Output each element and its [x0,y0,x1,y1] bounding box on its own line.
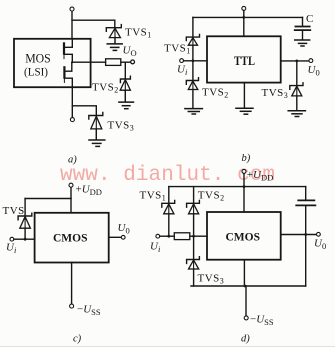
svg-text:TVS2: TVS2 [92,82,119,95]
junction [242,16,245,19]
ground [185,109,203,114]
wire bottom rail d [191,285,306,287]
ground [107,44,122,51]
wire [243,260,245,286]
svg-text:C: C [306,13,313,25]
svg-text:MOS: MOS [25,50,51,65]
wire [190,235,207,237]
wire [243,11,245,37]
wire top rail d [169,186,306,188]
wire [124,62,126,78]
wire output c [109,236,122,238]
capacitor C (b) [295,27,311,31]
resistor R (d) [174,233,190,240]
wire branch to TVS3 [72,106,96,115]
ground [89,140,105,146]
svg-text:U0: U0 [118,222,130,236]
svg-text:(LSI): (LSI) [24,67,48,79]
TVS diode TVS3 (d) [187,257,200,269]
terminal top a [70,7,74,11]
svg-text:TVS2: TVS2 [198,190,225,203]
TVS diode TVS (c) [18,213,32,228]
svg-text:TVS3: TVS3 [108,120,135,133]
wire [243,83,245,108]
transistor Q2 [64,62,72,87]
svg-text:TVS1: TVS1 [140,190,167,203]
wire [114,38,116,44]
wire bottom a [71,87,73,117]
wire [168,187,170,203]
svg-text:TVS2: TVS2 [202,87,229,100]
wire [121,61,131,63]
svg-text:Ui: Ui [177,64,188,78]
svg-text:U0: U0 [308,64,320,78]
terminal Ui b [180,59,184,63]
svg-text:TVS3: TVS3 [198,273,225,286]
wire output d [281,234,317,236]
IC MOS (LSI) box [14,39,91,87]
terminal Ui c [10,237,14,241]
svg-text:TVS1: TVS1 [164,43,191,56]
junction [167,235,170,238]
wire bottom c [71,263,73,305]
wire [243,174,245,212]
TVS diode TVS1 (d) [162,201,175,214]
wire input d [160,235,175,237]
wire [192,61,194,80]
IC CMOS box d [207,212,281,260]
wire input b [184,60,207,62]
wire [24,228,26,239]
terminal Uo c [121,235,125,239]
junction [244,285,247,288]
wire [302,17,304,26]
terminal +UDD d [242,169,246,173]
wire [296,96,298,111]
wire [168,214,170,236]
svg-text:U0: U0 [314,238,326,252]
svg-text:UO: UO [123,45,137,59]
wire input c [14,238,35,240]
terminal top b [242,6,246,10]
wire [192,90,194,109]
junction [192,59,195,62]
terminal +UDD c [69,183,73,187]
terminal Uo d [317,232,321,236]
wire [302,31,304,40]
svg-text:CMOS: CMOS [53,233,88,245]
svg-text:−USS: −USS [77,304,101,318]
ground [119,102,134,109]
wire [245,286,247,316]
svg-text:c): c) [73,334,82,345]
terminal -USS c [70,304,74,308]
svg-text:b): b) [242,153,251,164]
wire [296,61,298,85]
wire [72,20,115,27]
ground [288,111,305,117]
TVS diode TVS2 (b) [186,78,198,90]
svg-text:CMOS: CMOS [226,232,261,244]
svg-text:TVS3: TVS3 [262,87,289,100]
wire [95,129,97,140]
TVS diode TVS3 (a) [89,112,103,139]
junction [243,185,246,188]
junction [304,233,307,236]
wire [193,269,195,286]
TVS diode TVS2 (d) [187,201,200,214]
wire [193,187,195,203]
terminal -USS d [244,316,248,320]
svg-text:a): a) [68,155,77,166]
wire [193,214,195,236]
TVS diode TVS3 (b) [290,83,303,96]
wire [305,206,307,286]
svg-text:d): d) [241,334,250,345]
svg-text:TVS1: TVS1 [125,27,152,40]
IC CMOS box c [35,213,109,263]
wire [305,187,307,200]
terminal bottom a [70,118,74,122]
wire output b [281,60,309,62]
svg-text:Ui: Ui [150,241,161,255]
wire top rail b [193,16,303,18]
svg-text:Ui: Ui [6,242,17,256]
junction [295,60,298,63]
transistor Q1 [64,39,72,63]
resistor R (a) [106,59,121,66]
TVS diode TVS1 (a) [106,25,121,44]
svg-text:TTL: TTL [234,53,255,68]
junction [24,238,27,241]
capacitor C (d) [296,200,315,205]
wire [192,17,194,36]
wire [25,198,71,200]
terminal Ui d [156,234,160,238]
wire [192,45,194,61]
svg-text:−USS: −USS [250,314,274,328]
terminal Uo b [309,59,313,63]
svg-text:www. dianlut. com: www. dianlut. com [60,164,275,187]
ground [236,108,253,114]
wire [70,187,72,213]
ground [295,40,310,46]
TVS diode TVS1 (b) [186,35,199,46]
wire [193,236,195,259]
terminal I/O a [131,60,135,64]
IC TTL box [207,36,281,82]
wire [0,345,335,347]
TVS diode TVS2 (a) [120,76,130,102]
wire [71,11,73,39]
junction [192,235,195,238]
wire [124,90,126,102]
svg-text:TVS: TVS [3,205,25,217]
wire output a [72,61,106,63]
wire [24,199,26,216]
